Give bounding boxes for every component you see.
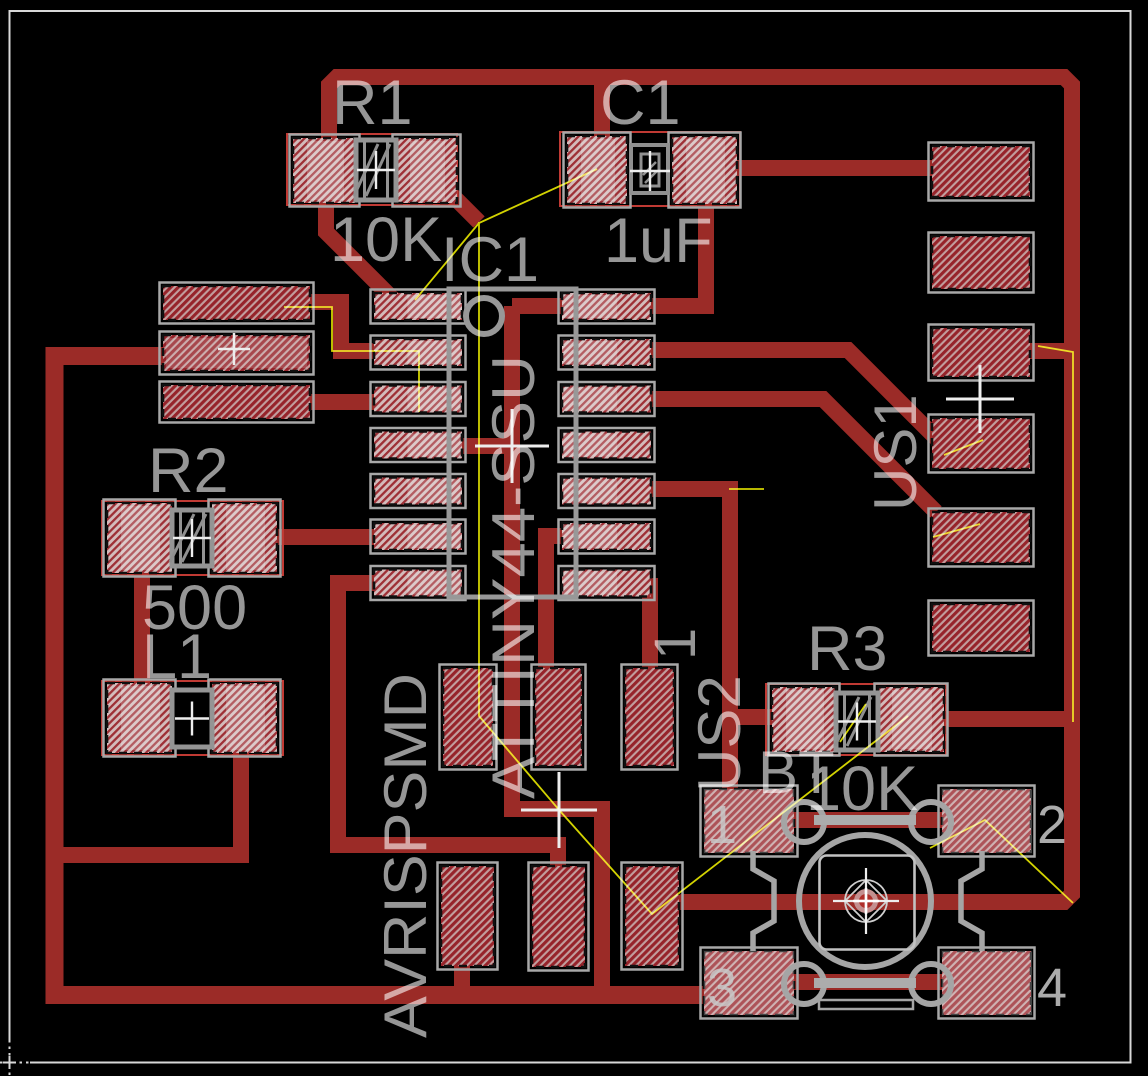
airwire right rail vertical xyxy=(1038,346,1073,722)
wire R3 right pad to right rail xyxy=(890,711,1072,727)
button US2 bottom bar xyxy=(814,978,916,988)
IC1 right pin 10 xyxy=(559,474,655,508)
header AVRISPSMD pad 1 xyxy=(440,665,497,770)
header AVRISPSMD pad 2 xyxy=(532,665,586,770)
wire button top pads bar xyxy=(790,812,946,828)
button US2 rounded square xyxy=(820,856,915,950)
wire conn pad1 to IC1 pin2 xyxy=(310,302,380,351)
wire R1 left pad to IC1 pin1 xyxy=(326,200,395,301)
connector US1 pad 3 xyxy=(929,325,1034,381)
button US2 top bar xyxy=(814,815,916,825)
wire L1 right pad down to left rail xyxy=(62,745,241,855)
wire RESET/VCC column through IC1 xyxy=(512,306,602,998)
connector US1 pad 5 xyxy=(929,509,1034,567)
IC1 right pin 12 xyxy=(559,382,655,416)
connector J1 pad 2 xyxy=(160,332,314,375)
header AVRISPSMD pad 3 xyxy=(622,665,678,770)
airwire long ratsnest xyxy=(479,222,908,914)
svg-text:1: 1 xyxy=(643,628,708,660)
node conn origin cross xyxy=(218,333,250,365)
wire button bottom pads bar xyxy=(790,974,946,990)
svg-text:R1: R1 xyxy=(332,68,413,138)
IC1 left pin 1 xyxy=(371,290,466,324)
resistor R1 pad 2 xyxy=(393,135,461,207)
button US2 big circle xyxy=(799,835,931,967)
inductor L1 pad 1 xyxy=(104,680,176,757)
resistor R3 pad 1 xyxy=(769,684,840,756)
inductor L1 body xyxy=(172,690,212,747)
button US2 pad 3 xyxy=(701,948,798,1019)
button US2 center target xyxy=(845,880,887,922)
wire R2 right pad to IC1 pin6 xyxy=(265,529,380,545)
wire VCC top rail / right rail xyxy=(329,77,1072,902)
svg-text:2: 2 xyxy=(1037,795,1067,855)
capacitor C1 pad 1 xyxy=(564,133,631,208)
svg-text:3: 3 xyxy=(707,958,737,1018)
node IC1 origin cross xyxy=(475,409,549,483)
wire C1 right down to IC1 pin14 xyxy=(512,198,706,306)
airwire stub near IC1 pin10 xyxy=(729,488,764,490)
resistor R2 body xyxy=(172,510,212,566)
connector US1 pad 2 xyxy=(929,233,1034,293)
airwire tick US1 pad4 xyxy=(944,440,983,455)
IC1 right pin 9 xyxy=(559,520,655,554)
R1 outline xyxy=(287,134,457,205)
resistor R2 pad 2 xyxy=(209,500,281,577)
IC1 right pin 8 xyxy=(559,566,655,600)
wire GND left+bottom rail xyxy=(55,356,711,995)
R2 outline xyxy=(102,501,283,575)
IC1 right pin 13 xyxy=(559,336,655,370)
IC1 right pin 11 xyxy=(559,428,655,462)
wire AVRISP pad4 stub to GND xyxy=(454,955,470,995)
header AVRISPSMD pad 4 xyxy=(438,863,498,970)
resistor R3 body xyxy=(836,693,878,750)
button US2 lower outline bar xyxy=(819,1000,913,1009)
button US2 pad 4 xyxy=(939,948,1035,1019)
airwire C1 to IC1 pin1 xyxy=(415,169,597,300)
airwire button pad2 to corner xyxy=(930,820,1073,903)
wire IC1 pin9 to AVRISP pad2 xyxy=(546,536,570,685)
wire C1 left stub xyxy=(594,80,610,150)
wire IC1 pin10 down to button top pads xyxy=(648,489,730,800)
svg-text:R2: R2 xyxy=(148,436,229,506)
R3 outline xyxy=(766,684,946,755)
svg-text:4: 4 xyxy=(1037,958,1067,1018)
capacitor C1 pad 2 xyxy=(669,133,741,208)
resistor R1 body xyxy=(356,140,396,200)
wire IC1 pin4 stub to RESET column xyxy=(455,438,512,454)
IC1 left pin 6 xyxy=(371,520,466,554)
button US2 pad 2 xyxy=(939,786,1035,857)
wire US1 pad3 to right rail xyxy=(1025,343,1072,359)
wire IC1 pin7 to AVRISP pad5 xyxy=(338,583,558,880)
button US2 pad number digits xyxy=(707,795,1067,1018)
connector US1 pad 6 xyxy=(929,601,1034,656)
capacitor C1 body xyxy=(631,145,668,193)
IC1 right pin 14 xyxy=(559,290,655,324)
wire R1 right pad diagonal stub xyxy=(427,170,479,222)
button US2 pad 1 xyxy=(701,786,798,857)
svg-text:L1: L1 xyxy=(142,622,212,692)
wire IC1 pin13 to US1 pad4 xyxy=(648,350,938,440)
IC1 pin1 mark circle xyxy=(466,298,502,334)
wire conn pad3 to IC1 pin3 xyxy=(305,394,380,410)
IC1 left pin 3 xyxy=(371,382,466,416)
resistor R3 pad 2 xyxy=(875,684,948,756)
connector J1 pad 3 xyxy=(160,382,314,423)
svg-text:R3: R3 xyxy=(807,614,888,684)
IC1 left pin 4 xyxy=(371,428,466,462)
svg-text:AVRISPSMD: AVRISPSMD xyxy=(372,673,439,1038)
airwire conn pad1 jog xyxy=(284,307,419,412)
wire R2 left pad to L1 left pad xyxy=(134,565,150,690)
wire IC1 pin12 to US1 pad5 xyxy=(648,399,936,512)
connector J1 pad 1 xyxy=(160,283,314,324)
svg-text:ATTINY44-SSU: ATTINY44-SSU xyxy=(480,355,547,799)
header AVRISPSMD pad 5 xyxy=(529,863,589,971)
node US1 origin cross xyxy=(946,365,1014,433)
resistor R1 pad 1 xyxy=(290,135,360,207)
op-amp IC1 body outline xyxy=(449,289,576,597)
wire junction to R3 left pad xyxy=(730,709,800,725)
svg-text:1uF: 1uF xyxy=(604,206,713,276)
wire IC1 pin8 to AVRISP pad3 xyxy=(642,578,658,685)
resistor R2 pad 1 xyxy=(104,500,176,577)
svg-text:C1: C1 xyxy=(600,68,681,138)
svg-text:1: 1 xyxy=(707,795,737,855)
connector US1 pad 4 xyxy=(929,415,1034,473)
airwire tick US1 pad5 xyxy=(933,524,980,537)
node AVRISP origin cross xyxy=(521,772,597,848)
IC1 left pin 5 xyxy=(371,474,466,508)
header AVRISPSMD pad 6 xyxy=(622,863,683,970)
svg-text:US2: US2 xyxy=(686,675,753,792)
inductor L1 pad 2 xyxy=(209,680,281,757)
button US2 leg circles xyxy=(784,802,824,842)
C1 outline xyxy=(560,132,740,206)
IC1 left pin 2 xyxy=(371,336,466,370)
svg-text:US1: US1 xyxy=(862,394,929,511)
IC1 left pin 7 xyxy=(371,566,466,600)
button US2 side brackets xyxy=(753,851,774,951)
airwire across R3 body xyxy=(840,704,866,742)
connector US1 pad 1 xyxy=(929,143,1034,201)
svg-text:10K: 10K xyxy=(330,205,442,275)
svg-text:IC1: IC1 xyxy=(441,225,539,295)
wire C1 right to US1 pad1 xyxy=(728,160,940,176)
svg-text:10K: 10K xyxy=(806,754,918,824)
L1 outline xyxy=(102,681,283,755)
